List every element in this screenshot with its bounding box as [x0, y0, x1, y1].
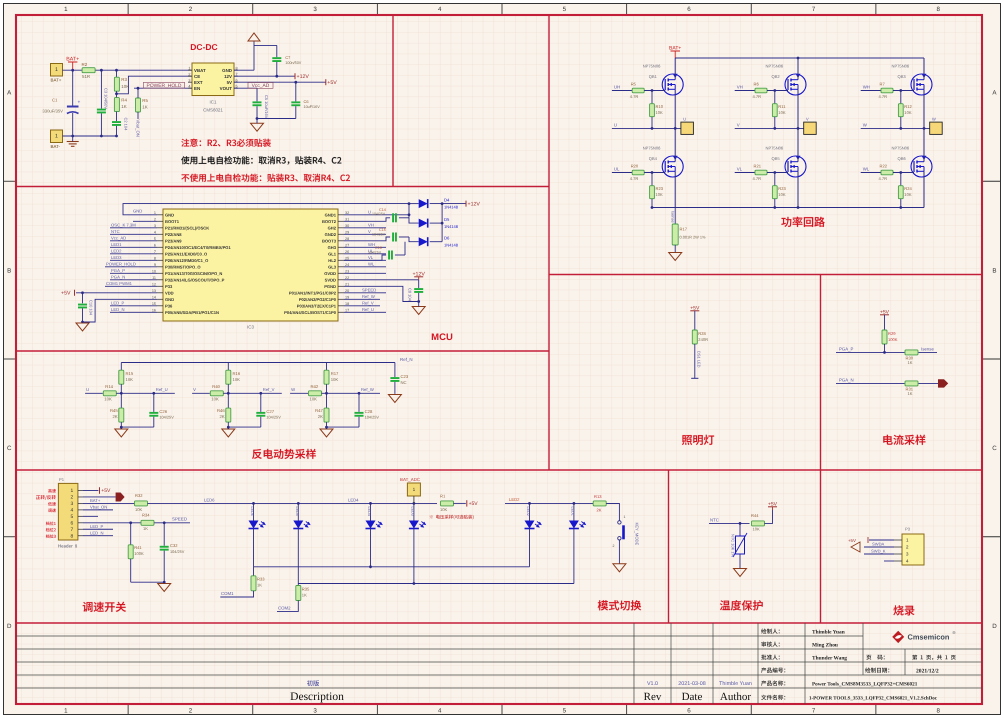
- svg-text:2021/12/2: 2021/12/2: [916, 669, 939, 675]
- resistor R32: [135, 501, 148, 506]
- svg-text:104/25V: 104/25V: [365, 416, 380, 420]
- svg-text:2K: 2K: [597, 507, 602, 512]
- LED LED5: [297, 503, 299, 520]
- gate wire WL: [861, 172, 894, 174]
- net label LED2: [110, 253, 157, 255]
- svg-text:51R: 51R: [82, 74, 90, 79]
- power-up triangle GND pin: [234, 69, 254, 71]
- svg-text:Isense: Isense: [921, 346, 934, 351]
- resistor R46: [227, 393, 229, 408]
- svg-text:NP75N06: NP75N06: [892, 146, 910, 151]
- svg-text:QB5: QB5: [772, 156, 781, 161]
- svg-text:104/25V: 104/25V: [159, 416, 174, 420]
- svg-text:Ref_U: Ref_U: [362, 307, 374, 312]
- svg-text:BOOT3: BOOT3: [322, 238, 337, 243]
- wire LED top rail: [148, 502, 438, 504]
- svg-text:1: 1: [55, 67, 58, 73]
- svg-text:EXT: EXT: [194, 80, 203, 85]
- net label POWER_HOLD: [105, 266, 157, 268]
- resistor R17: [326, 363, 328, 371]
- svg-text:8: 8: [936, 708, 940, 715]
- svg-text:4: 4: [71, 507, 74, 513]
- svg-text:8: 8: [154, 256, 156, 260]
- ground mode switch: [613, 564, 626, 572]
- svg-text:P24/AN10/OC1/EC4/T0/RMBX/PG1: P24/AN10/OC1/EC4/T0/RMBX/PG1: [165, 245, 231, 250]
- svg-text:®: ®: [953, 630, 956, 635]
- wire 5V net: [234, 81, 326, 83]
- svg-text:P25/AN11/EXD0/C0_O: P25/AN11/EXD0/C0_O: [165, 251, 207, 256]
- svg-text:EN: EN: [194, 86, 200, 91]
- svg-text:R15: R15: [126, 371, 134, 376]
- svg-text:OSC_K 7.3M: OSC_K 7.3M: [111, 223, 136, 228]
- wire P1 pin2 offpage: [83, 496, 116, 498]
- svg-text:R6: R6: [754, 81, 760, 86]
- svg-text:2K: 2K: [113, 414, 118, 419]
- svg-text:D: D: [992, 623, 997, 630]
- resistor R6: [755, 88, 767, 93]
- wire lamp output: [694, 344, 696, 378]
- svg-text:1K: 1K: [302, 592, 307, 597]
- resistor R16: [227, 363, 229, 371]
- svg-text:10K: 10K: [126, 377, 134, 382]
- svg-text:1N4148: 1N4148: [444, 205, 459, 210]
- bootstrap capacitor C15: [344, 237, 390, 241]
- wire P1 pin7 LED_P: [83, 528, 113, 530]
- svg-text:LED6: LED6: [250, 507, 254, 516]
- svg-text:10uF/16V: 10uF/16V: [304, 105, 321, 109]
- ground earth at battery: [67, 141, 79, 143]
- MCU IC3 body: [163, 209, 338, 321]
- resistor R21: [755, 170, 767, 175]
- svg-text:LED3: LED3: [111, 255, 122, 260]
- svg-text:P1: P1: [59, 477, 65, 482]
- svg-text:11: 11: [152, 276, 156, 280]
- resistor R40: [192, 392, 210, 394]
- power flag +5V: [325, 79, 327, 85]
- svg-text:NTC: NTC: [111, 229, 120, 234]
- port POWER_HOLD: [144, 82, 185, 88]
- svg-text:100K: 100K: [888, 337, 898, 342]
- wire P1 pin3 BAT+ net: [83, 502, 135, 504]
- svg-text:1K: 1K: [121, 104, 126, 109]
- svg-text:B: B: [992, 267, 996, 274]
- svg-text:NP75N06: NP75N06: [766, 146, 784, 151]
- wire P1 pin6 speed: [83, 522, 141, 524]
- wire bottom R47: [327, 426, 360, 428]
- bootstrap capacitor C14: [344, 218, 390, 222]
- wire bottom R46: [228, 426, 260, 428]
- svg-text:2: 2: [189, 708, 193, 715]
- svg-text:4: 4: [438, 708, 442, 715]
- svg-text:R20: R20: [631, 163, 639, 168]
- svg-text:MCU: MCU: [431, 332, 453, 343]
- svg-text:4.7R: 4.7R: [753, 94, 762, 99]
- svg-text:P22/AN8: P22/AN8: [165, 232, 182, 237]
- capacitor C26: [153, 393, 155, 412]
- svg-text:4: 4: [154, 230, 156, 234]
- svg-text:8: 8: [936, 6, 940, 13]
- capacitor C3: [100, 70, 102, 108]
- svg-text:QB6: QB6: [898, 156, 907, 161]
- svg-text:P01/AN1/INT1/PG1/C0P2: P01/AN1/INT1/PG1/C0P2: [289, 290, 337, 295]
- resistor R11: [774, 91, 776, 104]
- svg-text:C6: C6: [304, 99, 310, 104]
- svg-text:W: W: [932, 117, 936, 122]
- svg-text:+5V: +5V: [101, 488, 111, 494]
- svg-text:P30/RMST/OPO_O: P30/RMST/OPO_O: [165, 264, 201, 269]
- wire LED bus COM1: [254, 566, 530, 568]
- svg-text:24: 24: [345, 263, 349, 267]
- wire to Ref_V: [228, 392, 281, 394]
- svg-text:LED1: LED1: [111, 242, 122, 247]
- resistor R44: [752, 521, 765, 526]
- bootstrap capacitor C16: [344, 255, 386, 260]
- capacitor C1 electrolytic: [72, 70, 74, 105]
- svg-text:LED2: LED2: [509, 497, 520, 502]
- svg-text:+: +: [78, 101, 81, 106]
- svg-text:R46: R46: [217, 408, 225, 413]
- svg-text:5: 5: [71, 514, 74, 520]
- wire +5V programming: [869, 539, 894, 541]
- resistor R5: [632, 88, 644, 93]
- note adc sampling: [430, 515, 474, 520]
- svg-text:1: 1: [154, 211, 156, 215]
- phase wire V: [735, 127, 804, 129]
- title block row labels: [761, 629, 780, 634]
- svg-text:NP75N06: NP75N06: [643, 146, 661, 151]
- resistor R13: [593, 501, 606, 506]
- svg-text:330uF/35V: 330uF/35V: [42, 109, 63, 114]
- svg-text:BAT_ADC: BAT_ADC: [400, 477, 421, 482]
- svg-text:Thimble Yuan: Thimble Yuan: [719, 681, 752, 687]
- capacitor C7: [272, 57, 281, 59]
- resistor R24: [900, 173, 902, 186]
- net label OSC_K 7.3M: [110, 227, 157, 229]
- wire VDD +5V: [76, 292, 157, 294]
- svg-text:R47: R47: [315, 408, 323, 413]
- svg-text:C: C: [7, 445, 12, 452]
- svg-text:0.001R 2W 1%: 0.001R 2W 1%: [680, 236, 707, 240]
- svg-text:2: 2: [189, 6, 193, 13]
- wire mode switch rail: [505, 502, 619, 504]
- svg-text:WH: WH: [863, 85, 870, 90]
- svg-text:10K: 10K: [656, 110, 664, 115]
- wire BAT+ power bus: [675, 57, 924, 59]
- section title mode switch: [598, 600, 641, 610]
- svg-text:LED2: LED2: [526, 507, 530, 516]
- wire MCU right pin row 26: [344, 253, 386, 255]
- svg-text:10K: 10K: [904, 192, 912, 197]
- net label LED3: [110, 259, 157, 261]
- net label LED_N: [110, 311, 157, 313]
- svg-text:Thunder Wang: Thunder Wang: [812, 656, 847, 662]
- svg-text:1N4148: 1N4148: [444, 243, 459, 248]
- wire BAT- rail: [63, 135, 117, 137]
- svg-text:1: 1: [55, 133, 58, 139]
- svg-text:29: 29: [345, 230, 349, 234]
- svg-text:D4: D4: [444, 197, 450, 202]
- svg-text:U: U: [86, 387, 89, 392]
- svg-text:Ref_V: Ref_V: [362, 301, 374, 306]
- svg-text:P36: P36: [165, 303, 173, 308]
- svg-text:10K: 10K: [904, 110, 912, 115]
- svg-text:QB3: QB3: [898, 74, 907, 79]
- net label COM1 PWM1: [105, 285, 157, 287]
- svg-text:LED3: LED3: [411, 507, 415, 516]
- section title speed switch: [83, 602, 126, 612]
- svg-text:2: 2: [613, 544, 615, 548]
- svg-text:4: 4: [438, 6, 442, 13]
- note line 3: [181, 174, 350, 182]
- ruler ticks and coordinates: [127, 4, 129, 16]
- svg-text:10K: 10K: [211, 397, 219, 402]
- resistor R20: [632, 170, 644, 175]
- svg-text:PGND: PGND: [324, 284, 336, 289]
- wire SWD_K: [864, 553, 894, 555]
- svg-text:NTC 10K 1%: NTC 10K 1%: [731, 534, 736, 558]
- svg-text:POWER_HOLD: POWER_HOLD: [106, 262, 136, 267]
- svg-text:LED2: LED2: [111, 249, 122, 254]
- svg-text:U: U: [368, 210, 371, 215]
- svg-text:6: 6: [687, 708, 691, 715]
- svg-text:R34: R34: [142, 513, 150, 518]
- svg-text:100K: 100K: [134, 551, 144, 556]
- gate wire VL: [735, 172, 768, 174]
- wire source bus: [652, 207, 924, 209]
- svg-text:VOUT: VOUT: [220, 86, 233, 91]
- svg-text:1: 1: [71, 488, 74, 494]
- svg-text:R14: R14: [105, 384, 113, 389]
- svg-text:GVDD: GVDD: [324, 271, 336, 276]
- svg-text:20: 20: [345, 289, 349, 293]
- svg-text:NP75N06: NP75N06: [643, 64, 661, 69]
- svg-text:R4: R4: [121, 98, 127, 103]
- svg-text:3: 3: [71, 501, 74, 507]
- net label NTC: [110, 233, 157, 235]
- svg-text:Ref_W: Ref_W: [361, 387, 374, 392]
- svg-text:R44: R44: [751, 513, 759, 518]
- svg-text:P23/AN9: P23/AN9: [165, 238, 182, 243]
- svg-text:19: 19: [345, 295, 349, 299]
- svg-text:R22: R22: [880, 163, 888, 168]
- svg-text:GND: GND: [165, 297, 174, 302]
- power flag +5V MCU: [74, 290, 76, 296]
- ground bemf W: [320, 429, 333, 437]
- svg-text:D6: D6: [444, 236, 450, 241]
- wire MCU right pin row 29: [344, 233, 386, 235]
- wire SVDD +12V: [344, 279, 419, 281]
- note line 1: [181, 139, 270, 147]
- svg-text:POWER_HOLD: POWER_HOLD: [147, 83, 182, 89]
- LED LED4: [370, 503, 372, 520]
- svg-text:4.7R: 4.7R: [879, 94, 888, 99]
- wire MCU right pin row 23: [344, 272, 386, 274]
- resistor R3: [116, 70, 118, 77]
- svg-text:26: 26: [345, 250, 349, 254]
- svg-text:1K: 1K: [908, 391, 913, 396]
- svg-text:SWD_K: SWD_K: [871, 548, 886, 553]
- svg-text:P03/AN3/T2EX/C1P1: P03/AN3/T2EX/C1P1: [297, 303, 337, 308]
- LED LED1: [573, 503, 575, 520]
- svg-text:100n/50V: 100n/50V: [285, 61, 301, 65]
- svg-text:10K: 10K: [331, 377, 339, 382]
- svg-text:D: D: [7, 623, 12, 630]
- svg-text:1: 1: [413, 487, 416, 492]
- ground MCU right: [412, 307, 425, 315]
- svg-text:WL: WL: [863, 167, 870, 172]
- svg-text:HL2: HL2: [328, 258, 336, 263]
- svg-text:1: 1: [64, 6, 68, 13]
- capacitor C6: [295, 82, 297, 101]
- svg-text:R2: R2: [82, 62, 88, 67]
- svg-text:LED_P: LED_P: [90, 524, 104, 529]
- svg-text:104/25V: 104/25V: [368, 250, 382, 254]
- source wire QB4: [674, 171, 676, 207]
- wire net Ref_U: [344, 311, 386, 313]
- svg-text:14: 14: [152, 295, 156, 299]
- wire MCU right pin row 27: [344, 246, 386, 248]
- capacitor C10: [82, 293, 84, 304]
- svg-text:12V: 12V: [224, 74, 232, 79]
- svg-text:1: 1: [64, 708, 68, 715]
- port W phase: [930, 122, 943, 134]
- gate wire WH: [861, 90, 894, 92]
- svg-text:5: 5: [563, 708, 567, 715]
- svg-text:4.7R: 4.7R: [630, 94, 639, 99]
- svg-text:1N4148: 1N4148: [444, 224, 459, 229]
- svg-text:P26/AN12/RMD0/C1_O: P26/AN12/RMD0/C1_O: [165, 258, 208, 263]
- resistor R28: [692, 330, 697, 344]
- svg-text:2K: 2K: [318, 414, 323, 419]
- svg-text:10K: 10K: [310, 397, 318, 402]
- LED LED3: [413, 503, 415, 520]
- svg-text:KEY_MODE: KEY_MODE: [634, 523, 639, 546]
- resistor R31: [905, 381, 918, 386]
- wire MCU right pin row 24: [344, 266, 386, 268]
- source wire QB6: [923, 171, 925, 207]
- svg-text:10K: 10K: [778, 192, 786, 197]
- svg-text:C10 104: C10 104: [89, 300, 94, 316]
- resistor R2: [82, 68, 95, 73]
- svg-text:4.7R: 4.7R: [630, 176, 639, 181]
- diode D6 1N4148: [409, 237, 419, 242]
- svg-text:P04/AN4/SCL/BOST1/C1P0: P04/AN4/SCL/BOST1/C1P0: [284, 310, 337, 315]
- svg-text:NP75N06: NP75N06: [766, 64, 784, 69]
- svg-text:V: V: [193, 387, 196, 392]
- svg-text:Vcc_AD: Vcc_AD: [252, 83, 270, 89]
- svg-text:104/25V: 104/25V: [372, 232, 386, 236]
- svg-text:7: 7: [154, 250, 156, 254]
- resistor R23: [651, 173, 653, 186]
- svg-text:C7: C7: [285, 55, 290, 60]
- svg-text:P32/AN14/LG/OSCOUT/OPO_P: P32/AN14/LG/OSCOUT/OPO_P: [165, 277, 225, 282]
- capacitor C5: [256, 88, 258, 101]
- ground MCU: [76, 323, 89, 331]
- svg-text:27: 27: [345, 243, 349, 247]
- wire pin4: [884, 560, 894, 562]
- section title current sampling: [883, 435, 925, 445]
- svg-text:PGA_P: PGA_P: [839, 346, 854, 351]
- svg-text:C3 104/50V: C3 104/50V: [104, 88, 109, 109]
- svg-text:BAT+: BAT+: [90, 498, 101, 503]
- svg-text:C2 104: C2 104: [123, 118, 128, 132]
- svg-text:DC-DC: DC-DC: [190, 42, 217, 52]
- svg-text:3: 3: [313, 6, 317, 13]
- phase wire U: [612, 127, 681, 129]
- svg-text:+12V: +12V: [468, 201, 481, 207]
- svg-text:D5: D5: [444, 217, 450, 222]
- svg-text:VH: VH: [368, 223, 374, 228]
- svg-text:GL1: GL1: [328, 251, 337, 256]
- connector BAT- J2: [51, 130, 63, 143]
- power flag +12V: [294, 73, 296, 79]
- svg-text:30: 30: [345, 224, 349, 228]
- svg-text:SWDA: SWDA: [872, 541, 885, 546]
- svg-text:Author: Author: [720, 691, 752, 703]
- svg-text:4.7R: 4.7R: [753, 176, 762, 181]
- resistor R29: [882, 330, 887, 344]
- svg-text:+5V: +5V: [848, 538, 856, 543]
- svg-text:LED_P: LED_P: [111, 301, 125, 306]
- regulator IC1 CMS6021: [192, 63, 234, 96]
- svg-text:GND1: GND1: [325, 212, 337, 217]
- svg-text:IC1: IC1: [210, 100, 217, 105]
- svg-text:R41: R41: [134, 545, 142, 550]
- svg-text:Rev: Rev: [644, 691, 662, 703]
- svg-text:DS1 LED: DS1 LED: [697, 351, 702, 368]
- svg-text:IC3: IC3: [247, 325, 254, 330]
- capacitor C2: [112, 121, 121, 123]
- svg-text:10K: 10K: [753, 526, 761, 531]
- svg-text:V: V: [737, 123, 740, 128]
- svg-text:UL: UL: [614, 167, 620, 172]
- svg-text:VL: VL: [737, 167, 743, 172]
- svg-text:Ref_W: Ref_W: [362, 294, 375, 299]
- svg-text:5: 5: [563, 6, 567, 13]
- resistor R45: [120, 393, 122, 408]
- connector P1 labels: [48, 489, 56, 493]
- svg-text:R17: R17: [680, 227, 688, 232]
- svg-text:Description: Description: [290, 691, 344, 703]
- ground speed switch: [158, 584, 171, 592]
- svg-text:Date: Date: [682, 691, 703, 703]
- svg-text:21: 21: [345, 282, 349, 286]
- svg-text:CMS6021: CMS6021: [203, 108, 223, 113]
- svg-text:15: 15: [152, 302, 156, 306]
- svg-text:GND2: GND2: [325, 232, 337, 237]
- svg-text:R40: R40: [212, 384, 220, 389]
- off-page arrow Isense: [938, 379, 948, 387]
- wire BAT+ rail: [63, 69, 193, 71]
- svg-text:104/25V: 104/25V: [170, 550, 185, 554]
- svg-text:COM1: COM1: [221, 591, 234, 596]
- svg-text:Ref_U: Ref_U: [156, 387, 168, 392]
- svg-text:240R: 240R: [698, 337, 708, 342]
- svg-text:V: V: [806, 117, 809, 122]
- svg-text:PGA_N: PGA_N: [839, 377, 854, 382]
- svg-text:4.7R: 4.7R: [879, 176, 888, 181]
- svg-text:P3: P3: [905, 527, 911, 532]
- capacitor C8: [418, 280, 420, 288]
- svg-text:5V: 5V: [227, 80, 232, 85]
- svg-text:3: 3: [154, 224, 156, 228]
- svg-text:LED1: LED1: [571, 507, 575, 516]
- svg-text:UH: UH: [614, 85, 620, 90]
- resistor R22: [881, 170, 893, 175]
- wire to Ref_U: [121, 392, 175, 394]
- ground DC-DC output: [251, 123, 264, 131]
- wire SWDA: [864, 546, 894, 548]
